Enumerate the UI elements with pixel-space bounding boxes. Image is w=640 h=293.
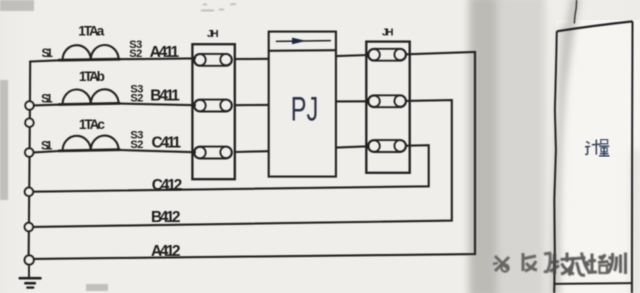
wire: bus to CT 1TAc S1 [33, 151, 59, 152]
wire: PJ to JH2 row B [336, 100, 369, 102]
node: bus junction circle C412 [25, 188, 33, 196]
node: bus junction circle A412 / ground [25, 255, 34, 264]
svg-text:C412: C412 [152, 177, 183, 194]
wire B412 loop: JH2-2 right, down, back to bus [33, 100, 452, 227]
svg-text:A412: A412 [151, 243, 181, 260]
meter PJ [269, 32, 336, 177]
terminal JH1-3 [194, 147, 232, 159]
wire: bus to CT 1TAb S1 [34, 104, 60, 107]
scan shadow band left of cabinet [469, 0, 640, 293]
wire A412 loop: JH2-1 right, down, back to bus [34, 52, 475, 259]
node: bus spare circle [25, 119, 33, 127]
cabinet top edge [557, 21, 633, 31]
svg-text:A411: A411 [150, 44, 180, 61]
terminal JH2-3 [368, 140, 406, 152]
transformer 1TAc [59, 136, 120, 151]
wire: JH1 to PJ row A [235, 58, 269, 60]
svg-text:1TAa: 1TAa [78, 24, 104, 39]
技 [550, 253, 574, 275]
svg-text:S1: S1 [41, 139, 53, 153]
label 计量 drawn as strokes [585, 140, 610, 156]
ground [20, 265, 41, 288]
svg-text:S2: S2 [130, 139, 143, 151]
svg-text:S1: S1 [41, 46, 53, 60]
wire C412 loop: JH2-3 right, down, back to bus [33, 145, 429, 192]
wire: PJ to JH2 row A [336, 55, 369, 56]
logo hook stroke [544, 253, 551, 272]
terminal JH2-1 [368, 49, 406, 61]
wire: 1TAa S2 to JH1 [120, 57, 196, 60]
wire: 1TAc S2 to JH1 [120, 150, 196, 152]
node: bus junction circle B412 [25, 223, 33, 231]
whiter page area right of fold [556, 20, 640, 293]
wire: bus to CT 1TAa S1 [30, 60, 59, 61]
svg-text:PJ: PJ [291, 90, 319, 128]
svg-text:B412: B412 [151, 209, 181, 226]
faint pencil smudges top [201, 4, 236, 11]
cabinet left edge [554, 31, 557, 293]
node: bus junction circle row C [25, 148, 33, 156]
svg-text:1TAc: 1TAc [79, 117, 105, 132]
arrow inside PJ [276, 38, 330, 45]
watermark text strokes [550, 253, 626, 276]
培 [588, 254, 609, 274]
wire: 1TAb S2 to JH1 [120, 104, 196, 106]
terminal JH1-2 [194, 100, 232, 112]
wire: JH1 to PJ row B [235, 104, 269, 106]
terminal block JH2 [366, 42, 409, 173]
page crease line above cabinet [574, 0, 576, 24]
transformer 1TAa [59, 45, 120, 60]
terminal JH2-2 [368, 95, 406, 107]
terminal JH1-1 [194, 54, 232, 66]
svg-text:1TAb: 1TAb [79, 69, 105, 84]
svg-text:S1: S1 [41, 92, 53, 106]
transformer 1TAb [59, 89, 120, 104]
wire: JH1 to PJ row C [235, 150, 269, 153]
svg-text:B411: B411 [150, 88, 180, 105]
svg-text:S2: S2 [129, 48, 142, 60]
训 [608, 253, 626, 275]
terminal block JH1 [192, 44, 234, 179]
cabinet right edge [631, 21, 634, 293]
svg-text:C411: C411 [152, 135, 182, 152]
计 [585, 140, 601, 155]
成 [569, 253, 590, 276]
logo cluster 1 [495, 256, 509, 271]
wire: PJ to JH2 row C [336, 146, 369, 147]
logo cluster 2 [522, 253, 537, 271]
量 [599, 140, 610, 156]
svg-text:S2: S2 [130, 93, 143, 105]
svg-text:JH: JH [382, 27, 394, 39]
svg-text:JH: JH [207, 28, 219, 40]
left vertical bus [29, 62, 31, 261]
cabinet bottom divider [555, 282, 632, 285]
node: bus junction circle row B [25, 101, 33, 109]
